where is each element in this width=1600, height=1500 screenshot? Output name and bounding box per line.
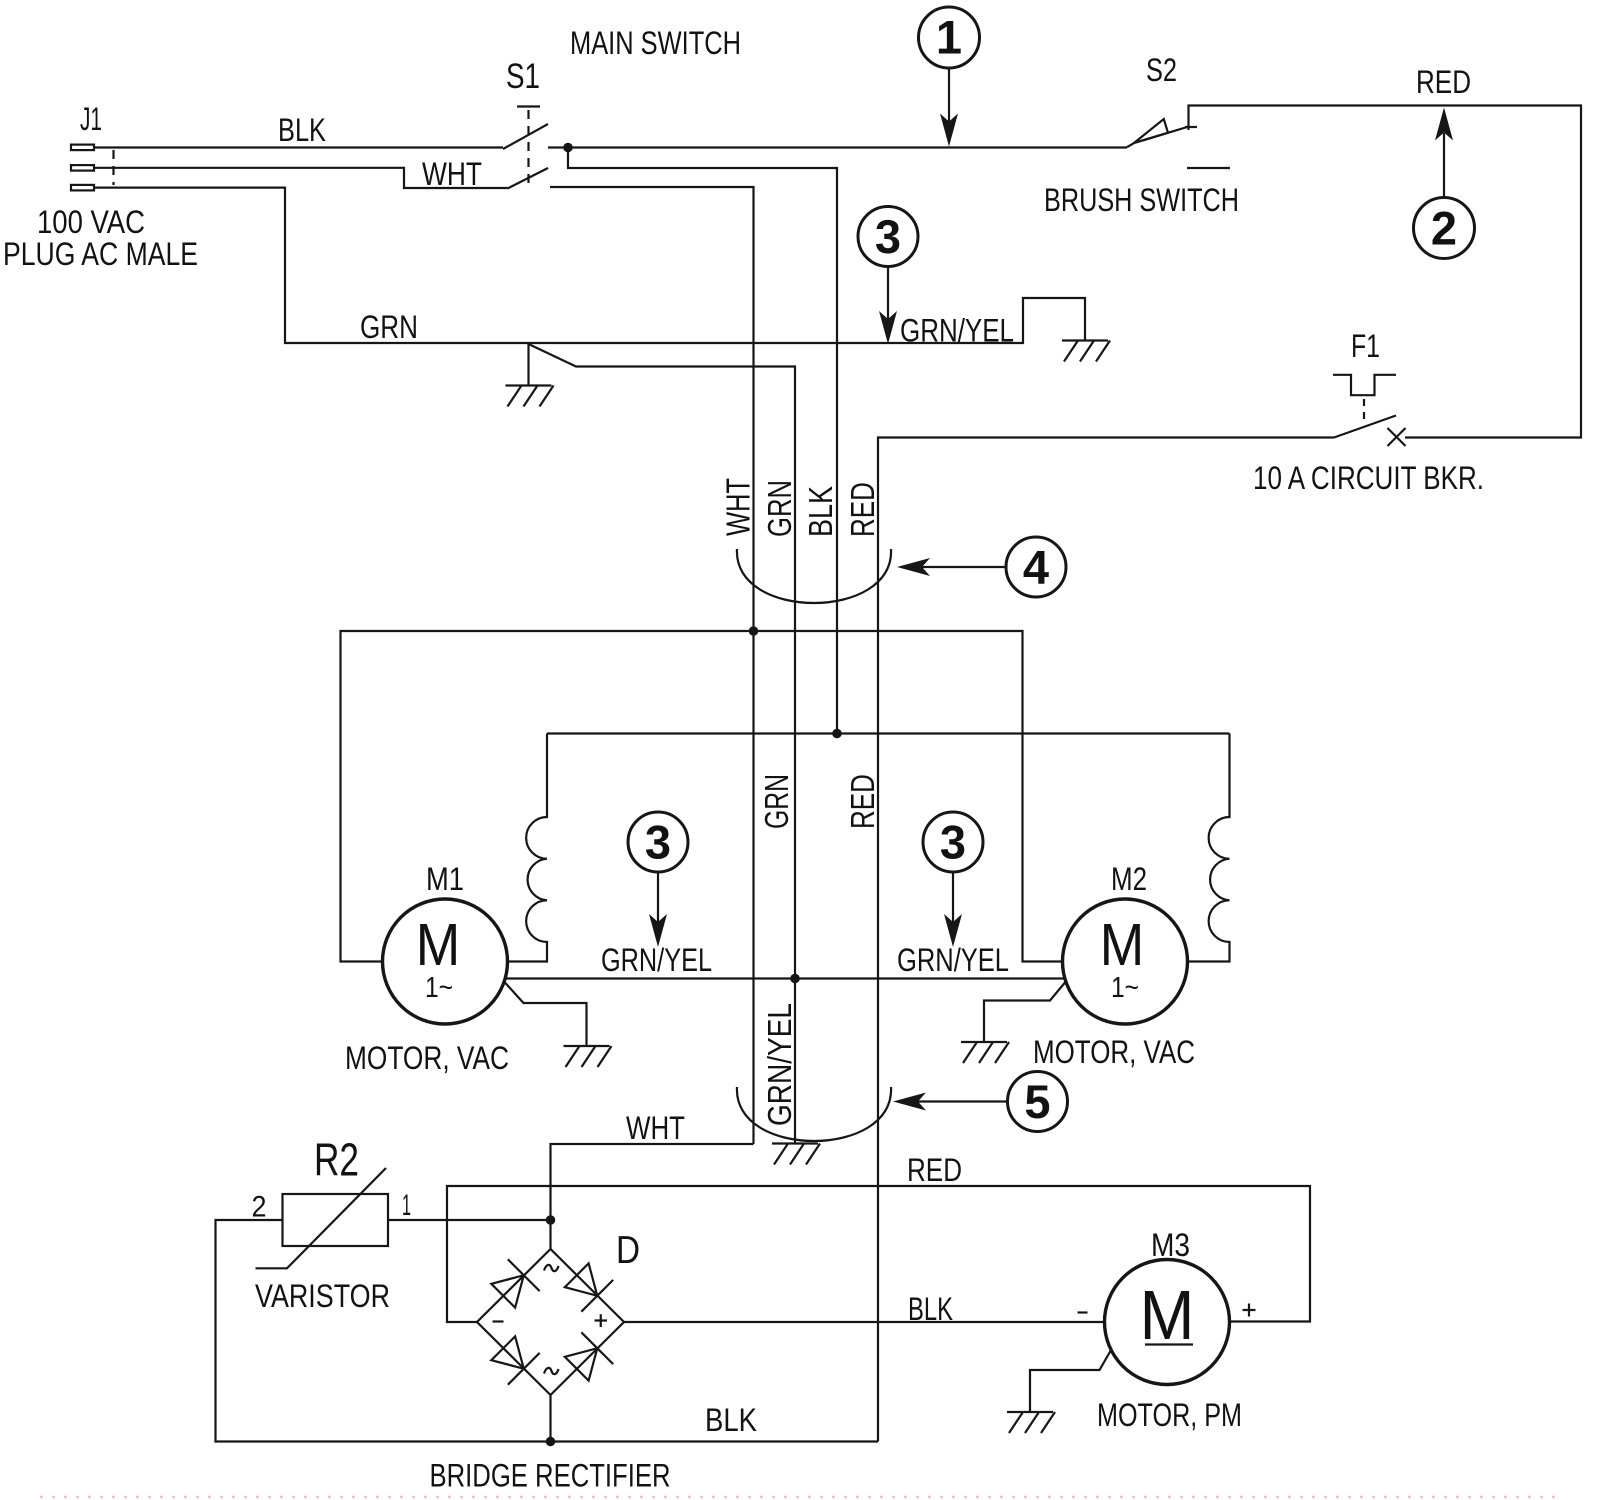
svg-text:3: 3 bbox=[645, 816, 671, 869]
svg-text:1~: 1~ bbox=[1111, 972, 1139, 1004]
cable clamp arc 5 bbox=[737, 1087, 891, 1141]
wire RED from S2 along top and right side to breaker F1 bbox=[1189, 106, 1582, 438]
diode bottom-right bbox=[561, 1332, 613, 1384]
svg-text:VARISTOR: VARISTOR bbox=[255, 1278, 390, 1314]
motor M3 circle bbox=[1105, 1260, 1230, 1385]
M3 plus mark bbox=[1243, 1304, 1256, 1317]
varistor R2 body bbox=[283, 1194, 389, 1246]
wire WHT from J1 pin 2 to switch S1 bbox=[94, 168, 508, 188]
svg-text:10 A CIRCUIT BKR.: 10 A CIRCUIT BKR. bbox=[1253, 460, 1484, 496]
svg-text:WHT: WHT bbox=[720, 478, 757, 536]
motor M2 field coil bbox=[1188, 734, 1230, 962]
wire BLK from bridge plus to M3 minus bbox=[624, 1321, 1105, 1323]
varistor R2 diagonal bbox=[256, 1168, 387, 1268]
svg-text:4: 4 bbox=[1023, 541, 1049, 594]
ground (GRN at S1) bbox=[506, 386, 554, 407]
wire rail upper to vacuum motors bbox=[341, 631, 1063, 962]
junction node WHT on upper rail bbox=[749, 626, 759, 636]
balloon 5 leader arrow bbox=[918, 1100, 1008, 1102]
svg-text:GRN/YEL: GRN/YEL bbox=[601, 942, 712, 978]
diode top-left bbox=[487, 1259, 539, 1311]
balloon 4 circle bbox=[1006, 537, 1066, 597]
balloon 2 leader arrow bbox=[1443, 133, 1445, 198]
balloon 5 circle bbox=[1008, 1072, 1068, 1132]
balloon 3 leader arrow (left) bbox=[657, 872, 659, 923]
connector J1 pin 1 terminal bbox=[71, 145, 94, 151]
motor M3 letter underline bbox=[1145, 1343, 1193, 1345]
wire WHT from S1 down the WHT vertical bbox=[550, 187, 754, 1144]
svg-text:1: 1 bbox=[936, 11, 962, 64]
switch S2 fixed contact tick bbox=[1185, 126, 1197, 128]
wire GRN from J1 pin 3 bbox=[94, 188, 1085, 343]
bridge rectifier top lead bbox=[549, 1220, 551, 1249]
wire R2 pin 1 to bridge input bbox=[388, 1219, 551, 1221]
ground (GRN/YEL bundle) bbox=[772, 1144, 820, 1165]
svg-text:M: M bbox=[1140, 1276, 1195, 1354]
svg-text:GRN/YEL: GRN/YEL bbox=[900, 313, 1014, 349]
wire RED from F1 down the RED vertical to bottom rail bbox=[878, 438, 1334, 1442]
svg-text:S1: S1 bbox=[506, 57, 540, 96]
svg-text:S2: S2 bbox=[1146, 52, 1177, 88]
ground (motor M2) bbox=[961, 1042, 1009, 1063]
svg-text:RED: RED bbox=[844, 482, 881, 537]
connector J1 pin 2 terminal bbox=[71, 165, 94, 171]
svg-text:2: 2 bbox=[252, 1191, 267, 1224]
balloon 4 leader arrow bbox=[922, 566, 1007, 568]
page edge artifact line bbox=[40, 1496, 1560, 1499]
ground (motor M3) bbox=[1007, 1412, 1055, 1433]
junction node bridge AC top bbox=[546, 1215, 556, 1225]
svg-text:3: 3 bbox=[875, 210, 901, 263]
switch S2 blade bbox=[1127, 127, 1189, 148]
connector J1 body dashed line bbox=[112, 150, 114, 185]
wire BLK from S1 to brush switch S2 bbox=[548, 146, 1127, 148]
svg-text:RED: RED bbox=[1416, 64, 1471, 100]
svg-text:3: 3 bbox=[940, 816, 966, 869]
wire GRN stub to chassis ground bbox=[527, 343, 529, 386]
cable clamp arc 4 bbox=[737, 549, 891, 603]
svg-text:5: 5 bbox=[1024, 1075, 1050, 1128]
motor M2 circle bbox=[1063, 899, 1188, 1024]
svg-text:BLK: BLK bbox=[802, 486, 839, 537]
diode bottom-left bbox=[487, 1332, 539, 1384]
switch S2 open contact dash bbox=[1187, 167, 1230, 169]
circuit breaker F1 dashed link bbox=[1363, 399, 1365, 424]
svg-text:M2: M2 bbox=[1111, 861, 1147, 897]
AC tilde bottom bbox=[544, 1368, 559, 1374]
bridge rectifier bottom lead bbox=[549, 1395, 551, 1442]
balloon 1 leader arrow bbox=[948, 68, 950, 122]
svg-text:GRN: GRN bbox=[360, 309, 418, 345]
ground (motor M1) bbox=[564, 1046, 612, 1067]
switch S1 actuator dashed link bbox=[527, 110, 529, 184]
wire GRN/YEL from M1 frame bbox=[505, 977, 795, 979]
switch S1 blade (WHT pole) bbox=[508, 168, 549, 189]
connector J1 pin 3 terminal bbox=[71, 185, 94, 191]
wire R2 pin 2 to bottom BLK rail bbox=[216, 1220, 879, 1442]
svg-text:BLK: BLK bbox=[278, 112, 326, 148]
wire M2 frame to chassis ground bbox=[984, 982, 1066, 1043]
svg-text:MOTOR, PM: MOTOR, PM bbox=[1097, 1397, 1242, 1433]
svg-text:M: M bbox=[416, 911, 461, 978]
balloon 3 circle (right) bbox=[923, 812, 983, 872]
bridge minus mark bbox=[493, 1320, 504, 1322]
wire GRN diagonal branch to GRN vertical bbox=[529, 344, 796, 1143]
svg-text:100 VAC: 100 VAC bbox=[37, 204, 145, 240]
svg-text:2: 2 bbox=[1431, 202, 1457, 255]
svg-text:GRN/YEL: GRN/YEL bbox=[761, 1003, 798, 1126]
switch S1 blade (BLK pole) bbox=[503, 124, 548, 149]
wire WHT from vertical to bridge rectifier bbox=[551, 1144, 754, 1220]
circuit breaker F1 blade bbox=[1334, 416, 1396, 438]
svg-text:GRN: GRN bbox=[758, 774, 795, 829]
wire M3 frame to chassis ground bbox=[1030, 1350, 1111, 1412]
svg-text:1~: 1~ bbox=[425, 972, 453, 1004]
balloon 3 circle (top) bbox=[858, 207, 918, 267]
switch S2 actuator wedge bbox=[1134, 119, 1168, 143]
svg-text:BLK: BLK bbox=[705, 1402, 757, 1438]
svg-text:MOTOR, VAC: MOTOR, VAC bbox=[345, 1040, 509, 1076]
svg-text:BRUSH SWITCH: BRUSH SWITCH bbox=[1044, 182, 1239, 218]
AC tilde top bbox=[544, 1265, 559, 1271]
svg-text:D: D bbox=[616, 1229, 640, 1272]
diode top-right bbox=[561, 1259, 613, 1311]
wire BLK from J1 pin 1 to switch S1 bbox=[94, 146, 503, 148]
M3 minus mark bbox=[1078, 1311, 1088, 1313]
balloon 3 circle (left) bbox=[628, 812, 688, 872]
svg-text:J1: J1 bbox=[80, 101, 102, 137]
balloon 2 circle bbox=[1414, 198, 1475, 259]
svg-text:1: 1 bbox=[402, 1189, 411, 1222]
svg-text:GRN/YEL: GRN/YEL bbox=[897, 942, 1009, 978]
svg-text:WHT: WHT bbox=[626, 1110, 685, 1146]
wire BLK branch down to BLK vertical bbox=[568, 148, 837, 734]
bridge plus mark bbox=[595, 1314, 608, 1327]
svg-text:F1: F1 bbox=[1351, 328, 1380, 364]
svg-text:M3: M3 bbox=[1151, 1227, 1190, 1263]
wire rail lower to motor field coils bbox=[547, 732, 1230, 734]
balloon 3 leader arrow (top) bbox=[887, 267, 889, 321]
svg-text:RED: RED bbox=[907, 1152, 962, 1188]
motor M1 field coil bbox=[508, 734, 547, 962]
junction node GRN/YEL on GRN vertical bbox=[790, 974, 800, 984]
circuit breaker F1 thermal element bbox=[1333, 375, 1396, 395]
svg-text:M1: M1 bbox=[426, 861, 464, 897]
wire M1 frame to chassis ground bbox=[505, 982, 587, 1046]
svg-text:MOTOR, VAC: MOTOR, VAC bbox=[1033, 1034, 1195, 1070]
junction node bridge AC bottom bbox=[546, 1437, 556, 1447]
svg-text:MAIN SWITCH: MAIN SWITCH bbox=[570, 25, 741, 61]
ground (GRN/YEL top right) bbox=[1062, 341, 1110, 362]
junction node BLK on lower rail bbox=[832, 729, 842, 739]
balloon 3 leader arrow (right) bbox=[952, 872, 954, 923]
svg-text:WHT: WHT bbox=[422, 156, 482, 192]
wire RED rail from bridge minus to M3 plus bbox=[447, 1186, 1310, 1322]
circuit breaker F1 contact X bbox=[1388, 428, 1406, 446]
svg-text:BRIDGE RECTIFIER: BRIDGE RECTIFIER bbox=[430, 1458, 671, 1494]
svg-text:RED: RED bbox=[844, 774, 881, 829]
junction node BLK after S1 bbox=[563, 143, 573, 153]
wire GRN/YEL from GRN vertical to M2 bbox=[795, 977, 1065, 979]
bridge rectifier D diamond bbox=[477, 1249, 624, 1395]
svg-text:M: M bbox=[1100, 911, 1145, 978]
svg-text:BLK: BLK bbox=[908, 1291, 953, 1327]
svg-text:PLUG AC MALE: PLUG AC MALE bbox=[3, 236, 198, 272]
svg-text:GRN: GRN bbox=[761, 480, 798, 537]
motor M1 circle bbox=[383, 899, 508, 1024]
svg-text:R2: R2 bbox=[314, 1134, 359, 1186]
balloon 1 circle bbox=[919, 7, 980, 68]
switch S1 actuator T-bar bbox=[517, 105, 540, 107]
